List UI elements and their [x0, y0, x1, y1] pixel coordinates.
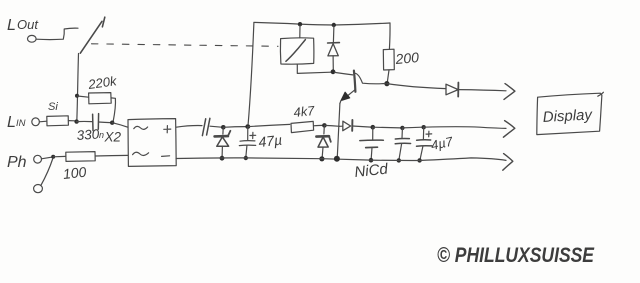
terminal L in — [32, 118, 40, 126]
node base junction — [331, 69, 336, 74]
wire rail to cap3 — [402, 126, 421, 129]
resistor 4k7 — [291, 121, 323, 132]
terminal Ph upper — [34, 155, 42, 163]
node emitter bottom — [334, 156, 340, 162]
zener diode D2 — [316, 126, 330, 157]
svg-text:Display: Display — [542, 106, 594, 126]
terminal Ph lower — [34, 185, 43, 193]
svg-text:220k: 220k — [86, 73, 118, 92]
node Ph — [51, 155, 55, 159]
svg-text:4µ7: 4µ7 — [430, 134, 455, 153]
svg-text:100: 100 — [62, 164, 87, 182]
node NiCd top — [371, 125, 376, 130]
wire rail to cap2 — [373, 126, 401, 129]
bottom rail — [176, 158, 506, 161]
wire node to capacitor — [77, 120, 92, 122]
wire rail to 4k7 — [248, 124, 290, 126]
svg-text:47µ: 47µ — [258, 132, 283, 150]
display box — [537, 92, 604, 134]
svg-text:Ph: Ph — [7, 154, 27, 171]
arrow collector rail — [504, 84, 515, 100]
capacitor C2 — [395, 128, 410, 159]
label L Out — [7, 17, 39, 34]
node collector — [384, 81, 389, 86]
transistor Q1 — [335, 71, 386, 104]
node NiCd bottom — [369, 158, 374, 163]
capacitor series — [202, 118, 210, 135]
node L in — [74, 119, 78, 123]
wire middle rail to arrow — [424, 127, 506, 129]
diode D3 — [340, 120, 372, 131]
node cap2 top — [400, 126, 404, 130]
switch S1 blade — [80, 17, 105, 53]
node zener2 bottom — [319, 156, 324, 161]
svg-text:n: n — [99, 130, 104, 140]
label L in — [7, 114, 26, 131]
wire terminal to switch contact — [36, 28, 78, 39]
arrow middle rail — [503, 121, 514, 138]
label 330n X2 — [76, 126, 121, 144]
svg-text:200: 200 — [394, 49, 420, 67]
wire capacitor to node — [99, 121, 111, 124]
svg-text:IN: IN — [16, 118, 26, 129]
wire emitter down to bottom rail — [337, 104, 340, 158]
node 47u bottom — [244, 156, 248, 160]
arrow bottom rail — [503, 154, 513, 171]
svg-text:© PHILLUXSUISSE: © PHILLUXSUISSE — [437, 244, 595, 267]
wire collector rail — [387, 84, 446, 89]
node cap3 top — [422, 125, 426, 129]
node cap2 bottom — [397, 158, 401, 162]
svg-text:Si: Si — [48, 101, 58, 113]
wire rail to emitter crossing — [324, 124, 339, 127]
svg-text:330: 330 — [76, 126, 100, 143]
capacitor 4u7 — [417, 127, 432, 158]
wire lower terminal to node — [41, 159, 53, 186]
wire top rail drop — [248, 23, 254, 125]
wire rail corner to 200 — [388, 23, 391, 49]
capacitor 330n X2 — [93, 114, 99, 131]
resistor 220k — [77, 93, 115, 122]
wire switch down to L in — [77, 54, 79, 122]
node diode top — [332, 23, 336, 27]
svg-text:4k7: 4k7 — [293, 103, 316, 120]
svg-text:L: L — [7, 114, 16, 131]
dashed mechanical link to relay — [92, 44, 279, 47]
svg-text:L: L — [7, 17, 16, 34]
node zener2 top — [322, 123, 327, 128]
resistor 100 — [53, 152, 128, 162]
diode D4 flyback — [328, 26, 340, 70]
zener diode D1 — [215, 128, 231, 157]
fuse Si — [47, 116, 69, 126]
svg-text:NiCd: NiCd — [354, 161, 390, 181]
relay K1 — [280, 38, 313, 64]
node relay top — [298, 22, 302, 26]
node zener1 bottom — [220, 156, 225, 161]
top rail — [254, 22, 390, 25]
wire middle rail to 47u node — [223, 126, 246, 129]
wire terminal to node — [41, 157, 51, 159]
wire bridge + output — [176, 126, 202, 128]
node zener1 top — [221, 125, 226, 130]
node 47u top — [245, 124, 250, 129]
terminal L Out — [28, 35, 37, 42]
svg-text:X2: X2 — [104, 130, 122, 145]
node switch/220k — [75, 94, 79, 98]
diode D5 — [446, 83, 506, 97]
wire relay coil bottom — [297, 64, 331, 73]
capacitor 47u — [239, 127, 255, 157]
battery NiCd — [360, 127, 384, 158]
resistor 200 — [383, 49, 394, 81]
bridge rectifier — [128, 119, 176, 167]
wire fuse to node — [68, 120, 74, 122]
wire node to bridge — [112, 123, 128, 128]
wire relay coil top — [299, 26, 301, 38]
node 330n/220k — [110, 121, 114, 125]
node cap3 bottom — [417, 158, 421, 162]
svg-text:Out: Out — [17, 17, 39, 32]
wire terminal to fuse — [39, 120, 46, 123]
wire capacitor to node — [210, 126, 222, 127]
